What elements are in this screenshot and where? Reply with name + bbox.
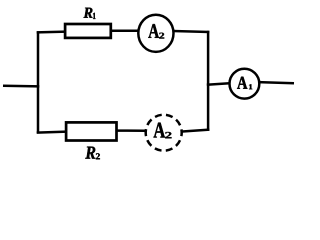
wire bottom branch middle segment [117, 129, 146, 132]
wire top branch left segment [37, 30, 67, 33]
resistor R1 [65, 24, 111, 38]
wire left lead [3, 85, 39, 88]
wire middle segment to A1 [207, 83, 230, 84]
ammeter A1 circle [230, 69, 260, 99]
wire bottom branch left segment [37, 132, 67, 133]
label A2 bottom dashed [154, 123, 172, 139]
label R2 [85, 147, 100, 160]
wire right lead [259, 82, 295, 83]
ammeter A2b dashed circle [146, 115, 182, 151]
label R1 [84, 8, 96, 19]
wire right vertical [207, 31, 210, 131]
wire top branch right segment [173, 31, 209, 32]
wire left vertical [37, 31, 40, 133]
wire bottom branch right segment [183, 130, 210, 132]
label A2 top [148, 24, 164, 38]
ammeter A2 top circle [138, 15, 173, 52]
resistor R2 [66, 122, 116, 140]
label A1 [237, 77, 252, 90]
wire top branch middle segment [110, 30, 139, 33]
